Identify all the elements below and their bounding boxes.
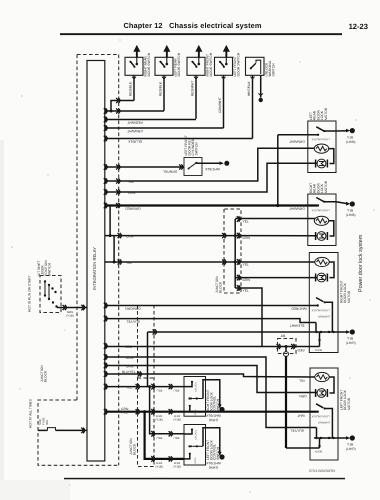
svg-text:GRN/WHT: GRN/WHT [218, 97, 222, 113]
svg-text:ORN: ORN [126, 234, 134, 238]
svg-text:YEL: YEL [299, 378, 305, 382]
svg-text:YEL: YEL [128, 180, 134, 184]
svg-text:(LH/R): (LH/R) [346, 447, 356, 451]
svg-text:SWITCH: SWITCH [48, 262, 52, 276]
svg-text:RED: RED [297, 348, 305, 352]
svg-text:INTEGRATION RELAY: INTEGRATION RELAY [92, 247, 97, 290]
svg-text:(LH/B): (LH/B) [346, 213, 356, 217]
svg-text:GRN/WHT: GRN/WHT [289, 206, 305, 210]
svg-text:(Y1B): (Y1B) [174, 465, 181, 469]
svg-text:BLU/BLK: BLU/BLK [127, 139, 141, 143]
svg-text:GRN: GRN [126, 364, 134, 368]
svg-text:GRN: GRN [243, 278, 251, 282]
svg-text:HOT IN RUN OR START: HOT IN RUN OR START [28, 276, 32, 312]
svg-text:LOCK/UNLOCK: LOCK/UNLOCK [311, 308, 329, 311]
svg-text:(LH/A): (LH/A) [209, 418, 219, 422]
svg-text:GRN: GRN [126, 356, 134, 360]
svg-text:KNOB: KNOB [315, 451, 322, 454]
svg-text:MOTOR: MOTOR [324, 180, 328, 193]
svg-text:WHT/BLK: WHT/BLK [204, 167, 219, 171]
svg-text:GRN: GRN [243, 236, 251, 240]
svg-text:J/B: J/B [281, 334, 287, 338]
svg-text:MOTOR: MOTOR [324, 107, 328, 120]
svg-text:12-23: 12-23 [349, 22, 368, 31]
svg-text:LOCK/UNLOCK: LOCK/UNLOCK [311, 415, 329, 418]
svg-text:SWITCH: SWITCH [195, 142, 199, 156]
svg-text:DOOR SWITCH: DOOR SWITCH [237, 52, 241, 76]
svg-text:Power door lock system: Power door lock system [358, 234, 364, 292]
svg-text:YEL: YEL [126, 385, 132, 389]
svg-text:/T1B: /T1B [157, 389, 163, 393]
svg-text:(Y1B): (Y1B) [156, 465, 163, 469]
svg-text:(LH/R): (LH/R) [346, 341, 356, 345]
svg-text:YEL: YEL [243, 220, 249, 224]
svg-text:HOT AT ALL TIMES: HOT AT ALL TIMES [29, 398, 33, 428]
svg-text:07D3-W0630LR0: 07D3-W0630LR0 [309, 469, 335, 473]
svg-text:RED/BLK: RED/BLK [159, 81, 163, 96]
svg-text:LOCK/UNLOCK: LOCK/UNLOCK [311, 208, 329, 211]
svg-text:Chapter 12 Chassis electrica: Chapter 12 Chassis electrical system [123, 21, 261, 30]
svg-text:YEL: YEL [126, 261, 132, 265]
svg-text:YEL: YEL [243, 263, 249, 267]
svg-text:LOCK: LOCK [194, 409, 197, 416]
svg-text:ORN: ORN [128, 191, 136, 195]
svg-text:RED: RED [125, 345, 133, 349]
svg-text:(Y1B): (Y1B) [67, 313, 74, 317]
svg-text:WHT/BLK: WHT/BLK [205, 413, 220, 417]
svg-text:GRN/YEL: GRN/YEL [163, 170, 178, 174]
svg-text:/T1B: /T1B [174, 389, 180, 393]
svg-text:30A: 30A [45, 420, 49, 425]
svg-text:LOCK/UNLOCK: LOCK/UNLOCK [311, 138, 329, 141]
svg-text:BLK/YEL: BLK/YEL [126, 319, 140, 323]
svg-text:UNLOCK: UNLOCK [194, 430, 197, 440]
svg-text:GRN/RED: GRN/RED [125, 206, 141, 210]
svg-text:(LH/A): (LH/A) [209, 465, 219, 469]
svg-text:DOOR SWITCH: DOOR SWITCH [147, 52, 151, 76]
svg-text:UNLOCK: UNLOCK [194, 382, 197, 392]
svg-text:/YEL: /YEL [121, 410, 128, 414]
svg-text:RED/WHT: RED/WHT [191, 81, 195, 96]
svg-text:(Y1B): (Y1B) [174, 418, 181, 422]
svg-text:GRN/WHT: GRN/WHT [289, 139, 305, 143]
svg-text:MOTOR: MOTOR [347, 290, 351, 303]
svg-text:GRN/WHT: GRN/WHT [318, 422, 330, 425]
svg-text:/T1B: /T1B [174, 436, 180, 440]
svg-text:WHT: WHT [297, 414, 305, 418]
svg-text:BLOCK: BLOCK [44, 370, 48, 382]
svg-text:MOTOR: MOTOR [347, 397, 351, 410]
svg-text:BLK/YEL: BLK/YEL [290, 429, 304, 433]
svg-text:RED/WHT: RED/WHT [127, 120, 142, 124]
svg-text:WHT/RED: WHT/RED [291, 306, 307, 310]
svg-text:/T1B: /T1B [157, 436, 163, 440]
svg-text:BLOCK: BLOCK [133, 443, 137, 455]
svg-text:ORN: ORN [299, 394, 307, 398]
svg-text:LOCK: LOCK [194, 457, 197, 464]
svg-text:DOOR SWITCH: DOOR SWITCH [177, 52, 181, 76]
svg-text:GRN/WHT: GRN/WHT [318, 316, 330, 319]
svg-text:(LH/B): (LH/B) [346, 140, 356, 144]
svg-text:(Y1B): (Y1B) [156, 418, 163, 422]
svg-text:YEL: YEL [243, 289, 249, 293]
svg-text:BLOCK: BLOCK [219, 281, 223, 293]
svg-text:KNOB: KNOB [315, 349, 322, 352]
svg-text:SWITCH: SWITCH [272, 63, 276, 77]
svg-text:BLU/YEL: BLU/YEL [122, 370, 136, 374]
svg-text:DOOR SWITCH: DOOR SWITCH [209, 52, 213, 76]
svg-text:ORN/GRN: ORN/GRN [125, 306, 141, 310]
svg-text:WHT/BLK: WHT/BLK [205, 461, 220, 465]
svg-text:GRN/WHT: GRN/WHT [127, 129, 143, 133]
svg-text:RED/BLK: RED/BLK [129, 81, 133, 96]
svg-text:WHT/BLK: WHT/BLK [247, 81, 251, 96]
svg-text:BLK/WHT: BLK/WHT [290, 323, 305, 327]
